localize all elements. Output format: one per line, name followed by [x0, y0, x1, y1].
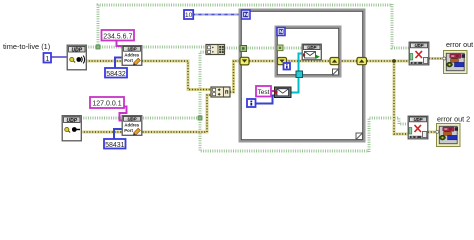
wire: green refnum array from Build Array into loops to UDP Write — [225, 47, 303, 50]
svg-text:Addres: Addres — [124, 123, 139, 128]
tunnel: cyan inner bottom — [296, 71, 303, 78]
node: Build Array refnums — [206, 45, 225, 55]
node: UDP Close 1 — [409, 42, 429, 65]
node: UDP Open 2 — [62, 116, 82, 142]
wire: 127.0.0.1 to UDP Multicast Open 2 — [120, 107, 127, 121]
indicator: error out — [443, 51, 467, 74]
terminal: inner i — [284, 63, 291, 70]
node: Build Array errors — [211, 87, 230, 97]
terminal: outer i — [247, 99, 256, 107]
wire: green refnum bottom main (UDP Open 2 rightward) — [81, 117, 200, 120]
constant: 10 — [184, 10, 193, 19]
wire: 234.5.6.7 to UDP Multicast Open 1 — [117, 40, 123, 46]
svg-text:58432: 58432 — [106, 71, 126, 78]
svg-text:error out 2: error out 2 — [437, 114, 470, 123]
structure: outer loop corner glyph — [356, 133, 363, 140]
structure: outer for loop border — [240, 10, 364, 141]
wire: error from UDP Open 1 down to Build Array errors — [86, 61, 211, 90]
svg-text:1: 1 — [45, 56, 49, 63]
wire: time-to-live constant to UDP Open 1 — [51, 56, 67, 58]
svg-text:UDP: UDP — [127, 117, 136, 122]
node: UDP Multicast Open 2 — [122, 116, 142, 136]
wire: 58431 to UDP Multicast Open 2 — [114, 129, 122, 139]
svg-text:UDP: UDP — [307, 45, 316, 50]
shift register: inner right — [330, 58, 339, 65]
svg-text:Port: Port — [124, 58, 133, 63]
constant: 58431 — [104, 139, 126, 149]
structure: inner loop corner glyph — [333, 69, 339, 75]
svg-text:Port: Port — [124, 128, 133, 133]
svg-text:10: 10 — [185, 12, 193, 19]
tunnel: green inner left — [277, 45, 283, 51]
terminal: outer N — [242, 10, 251, 19]
node: error junction dot — [392, 59, 396, 63]
svg-text:UDP: UDP — [67, 118, 78, 124]
terminal: inner N — [277, 28, 285, 36]
wire: green refnum top main (UDP Open 1 to Build Array) — [86, 46, 205, 49]
node: green junction dot top — [96, 45, 100, 49]
wire: cyan string from format node to UDP Write — [291, 54, 302, 93]
svg-text:UDP: UDP — [72, 47, 83, 53]
svg-text:Test: Test — [258, 89, 270, 96]
wire: error from UDP Open 2 up to Build Array errors — [81, 95, 211, 132]
structure: inner for loop border — [276, 27, 340, 76]
shift register: outer left — [240, 57, 249, 65]
wire: green refnum branch up over top rail to UDP Close 1 — [98, 4, 409, 48]
node: green junction dot bottom — [198, 116, 202, 120]
wire: 58432 to UDP Multicast Open 1 — [115, 58, 122, 69]
svg-text:UDP: UDP — [127, 47, 136, 52]
svg-text:127.0.0.1: 127.0.0.1 — [92, 101, 121, 108]
indicator: error out 2 — [436, 124, 460, 147]
svg-text:Addres: Addres — [124, 53, 139, 58]
constant: 58432 — [105, 68, 127, 78]
svg-text:error out: error out — [446, 40, 473, 49]
node: UDP Close 2 — [408, 116, 428, 139]
node: UDP Multicast Open 1 — [122, 46, 142, 66]
node: UDP Open 1 — [67, 45, 87, 70]
svg-text:58431: 58431 — [105, 142, 125, 149]
constant: 234.5.6.7 — [102, 30, 135, 41]
wire: error merged through both loops to UDP Close 1 — [230, 61, 409, 92]
wire: error branch down to UDP Close 2 — [394, 61, 408, 134]
shift register: outer right — [357, 58, 367, 65]
wire: 10 to outer N terminal — [192, 14, 241, 16]
tunnel: green outer left — [240, 46, 247, 52]
svg-text:time-to-live (1): time-to-live (1) — [3, 42, 50, 51]
wire: error UDP Close 2 to error out 2 — [428, 131, 437, 134]
svg-text:UDP: UDP — [413, 117, 422, 122]
wire: outer i terminal to format node — [256, 96, 275, 104]
node: UDP Write — [302, 44, 322, 60]
shift register: inner left — [278, 58, 287, 65]
wire: green refnum riser, bottom rail and feed to UDP Close 2 — [200, 52, 408, 152]
svg-text:UDP: UDP — [414, 43, 423, 48]
wire: Test constant to format node — [271, 90, 275, 92]
node: format/flatten string — [275, 87, 292, 98]
constant: 127.0.0.1 — [90, 97, 124, 108]
wire: error UDP Close 1 to error out — [429, 57, 444, 60]
svg-text:234.5.6.7: 234.5.6.7 — [103, 33, 132, 40]
constant: 1 (time-to-live) — [44, 53, 52, 63]
constant: Test — [256, 86, 271, 97]
